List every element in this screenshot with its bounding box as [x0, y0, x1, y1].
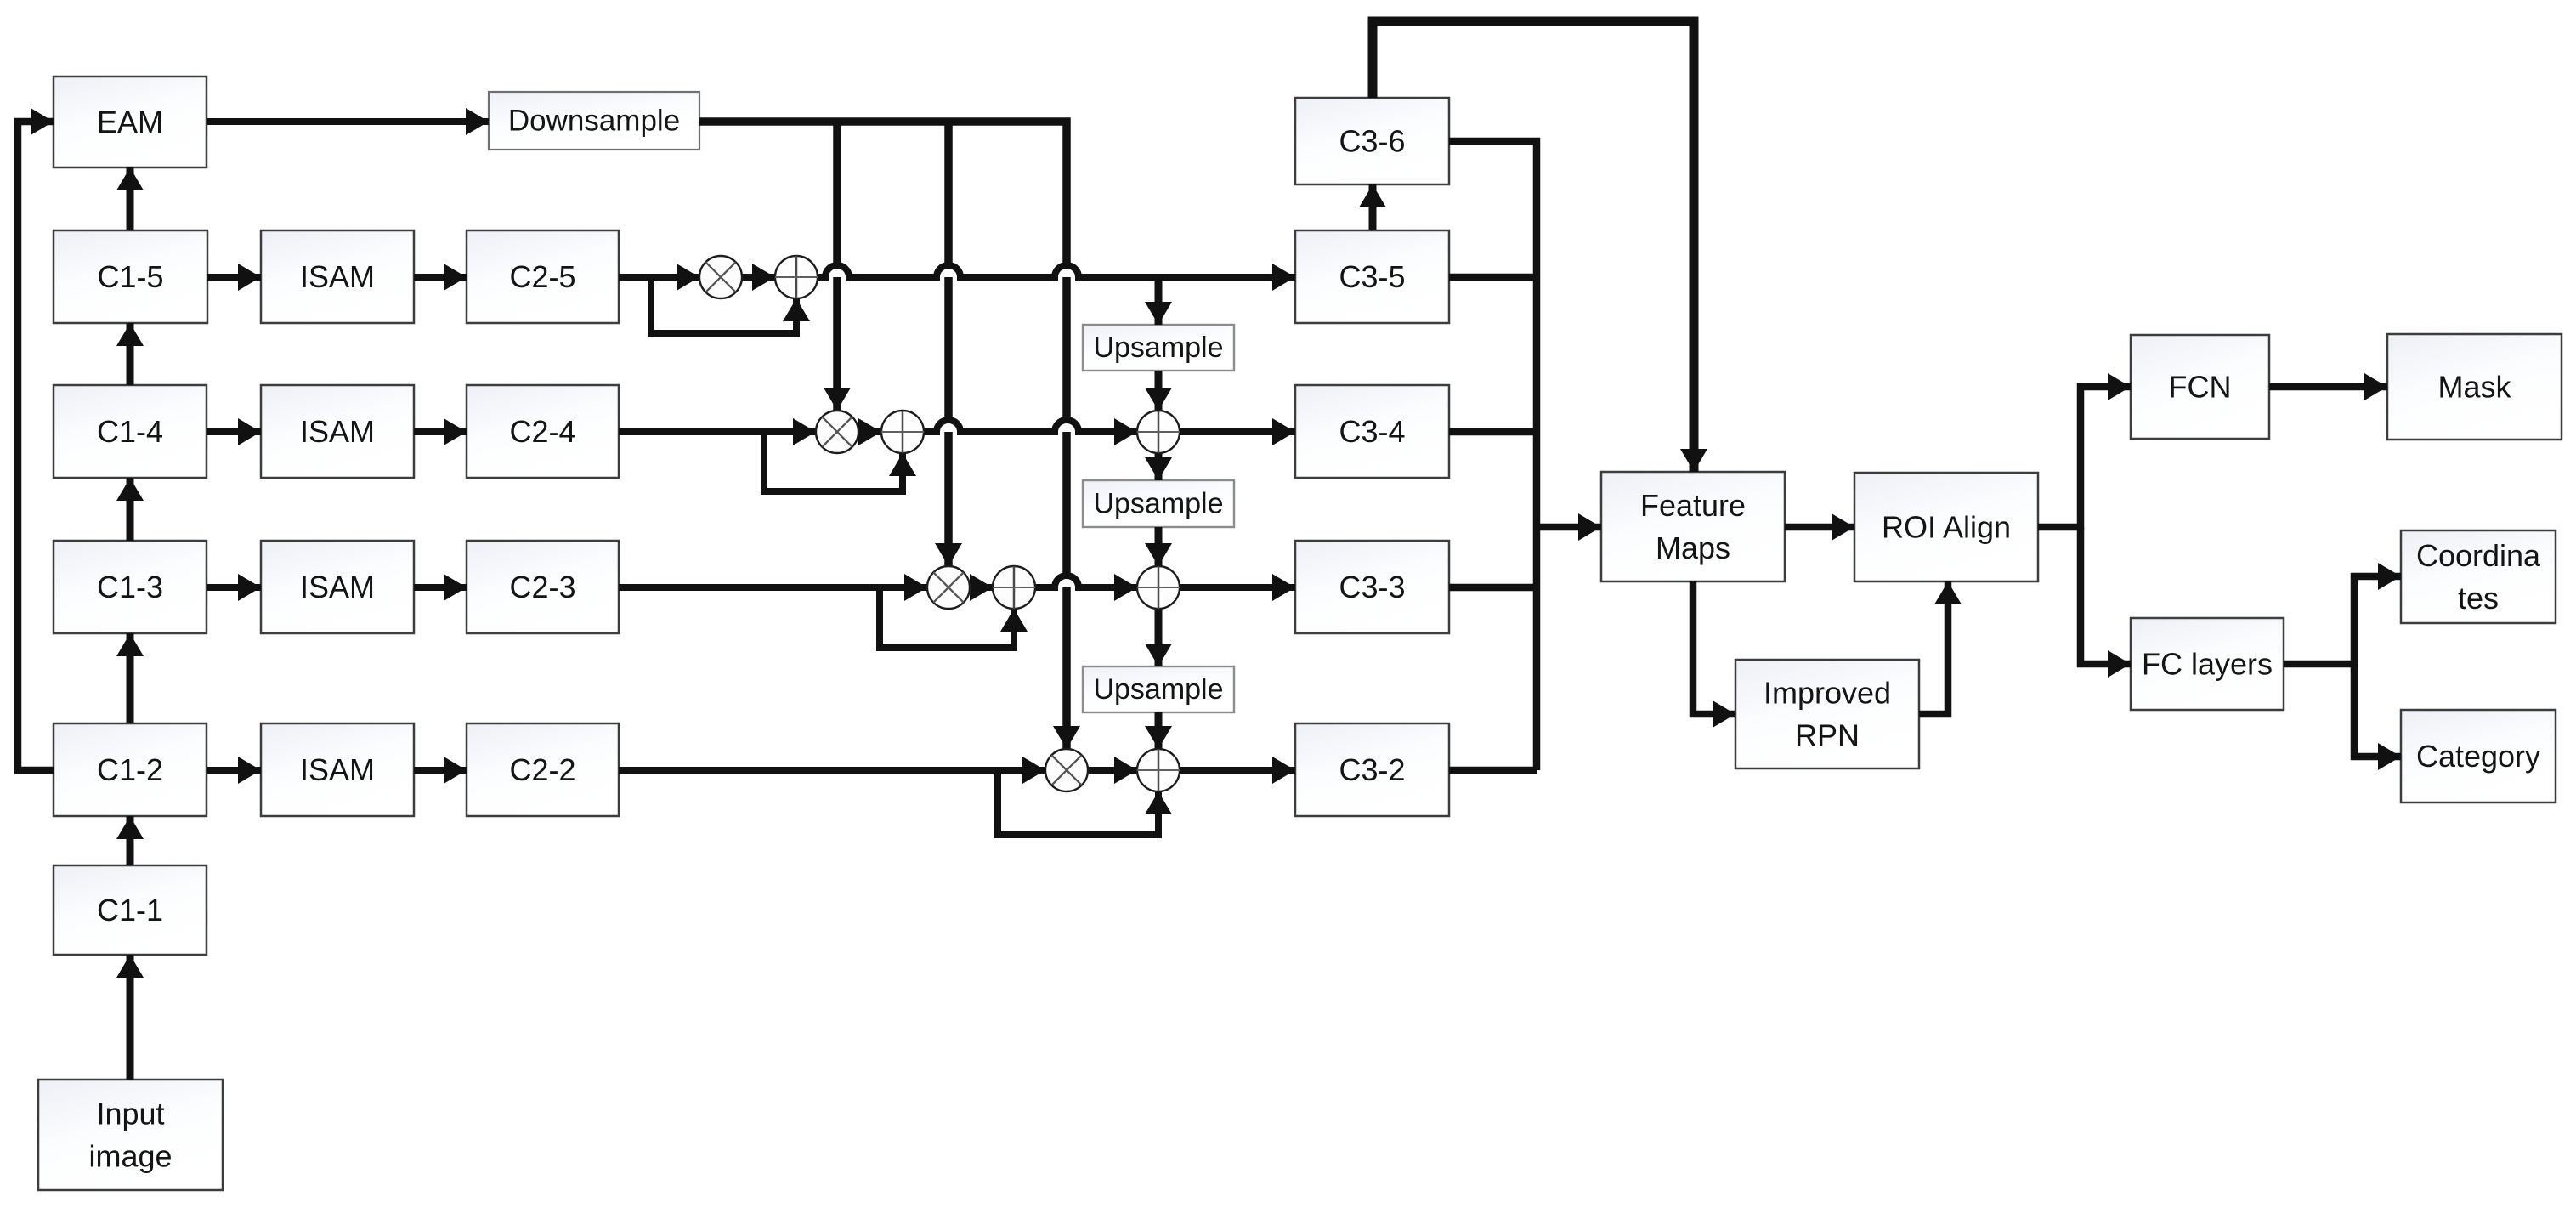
- wire C3-6 to bus: [1449, 141, 1537, 770]
- svg-text:C3-3: C3-3: [1339, 570, 1405, 604]
- svg-text:ISAM: ISAM: [300, 570, 375, 604]
- block C3-4: [1295, 385, 1449, 478]
- multiplier row4: [816, 411, 858, 453]
- upsample adder row3: [1137, 566, 1180, 609]
- svg-text:C3-6: C3-6: [1339, 124, 1405, 159]
- svg-text:Category: Category: [2416, 739, 2540, 774]
- wire Feature Maps to ROI Align: [1785, 524, 1854, 531]
- svg-text:C1-3: C1-3: [97, 570, 163, 604]
- wire C3-5 to bus: [1449, 274, 1537, 281]
- block C3-6: [1295, 98, 1449, 184]
- block ISAM row4: [261, 385, 414, 478]
- wire ROI Align to FCN: [2038, 387, 2131, 527]
- wire C2-4 to mult row4: [619, 428, 816, 435]
- block C2-3: [467, 541, 619, 633]
- block Upsample 3: [1083, 666, 1234, 712]
- multiplier row3: [927, 566, 970, 609]
- wire ISAM to C2-4: [414, 428, 467, 435]
- svg-text:Upsample: Upsample: [1093, 488, 1223, 520]
- block C3-5: [1295, 230, 1449, 323]
- multiplier row2: [1045, 749, 1088, 791]
- block ISAM row3: [261, 541, 414, 633]
- wire C3-6 top route to Feature Maps: [1373, 21, 1694, 472]
- wire Improved RPN to ROI Align: [1919, 581, 1948, 714]
- svg-text:Upsample: Upsample: [1093, 673, 1223, 706]
- block Improved RPN: [1735, 660, 1919, 768]
- block Mask: [2387, 334, 2562, 440]
- svg-text:EAM: EAM: [97, 105, 163, 139]
- adder row5: [775, 256, 818, 298]
- block FC layers: [2131, 618, 2284, 710]
- block C2-4: [467, 385, 619, 478]
- wire C1-5 to ISAM: [207, 274, 261, 281]
- svg-text:Feature: Feature: [1640, 488, 1746, 523]
- block C2-5: [467, 230, 619, 323]
- wire drop to mult row4: [833, 122, 841, 411]
- wire C2-2 to mult row2: [619, 767, 1045, 774]
- svg-text:ISAM: ISAM: [300, 414, 375, 449]
- wire mult to add row3: [970, 584, 993, 591]
- wire upsample-add row3 to C3-3: [1180, 584, 1295, 591]
- adder row3: [993, 566, 1035, 609]
- block Feature Maps: [1601, 472, 1785, 581]
- wire C1-5 to EAM: [127, 167, 134, 230]
- wire C1-2 to ISAM: [207, 767, 261, 774]
- wire mult row2 to upsample-add: [1088, 767, 1137, 774]
- wire C1-1 to C1-2: [127, 816, 134, 865]
- wire upsample-add row4 to C3-4: [1180, 428, 1295, 435]
- block C1-5: [54, 230, 207, 323]
- svg-text:Input: Input: [96, 1097, 164, 1131]
- svg-text:C2-4: C2-4: [509, 414, 575, 449]
- svg-text:Improved: Improved: [1764, 676, 1891, 711]
- wire Downsample trunk and drop to mult row2: [699, 122, 1067, 749]
- upsample adder row2: [1137, 749, 1180, 791]
- wire EAM to Downsample: [207, 118, 489, 125]
- svg-text:FCN: FCN: [2169, 370, 2232, 405]
- wire C2-3 to mult row3: [619, 584, 927, 591]
- wire add row3 to Upsample3: [1155, 609, 1163, 666]
- wire Feature Maps to Improved RPN: [1693, 581, 1735, 714]
- block Coordinates: [2401, 530, 2556, 623]
- svg-text:ISAM: ISAM: [300, 259, 375, 294]
- wire C2-5 to mult row5: [619, 274, 699, 281]
- svg-text:C1-5: C1-5: [97, 259, 163, 294]
- block ISAM row2: [261, 723, 414, 816]
- svg-text:image: image: [88, 1139, 172, 1174]
- wire add row4 to Upsample2: [1155, 453, 1163, 480]
- wire FCN to Mask: [2269, 383, 2387, 391]
- upsample adder row4: [1137, 411, 1180, 453]
- block FCN: [2131, 335, 2269, 439]
- svg-text:Maps: Maps: [1656, 530, 1730, 565]
- wire C3-2 to bus: [1449, 767, 1537, 774]
- svg-text:C2-2: C2-2: [509, 752, 575, 787]
- block Input image: [38, 1080, 223, 1190]
- wire C3-5 to C3-6: [1369, 184, 1377, 230]
- svg-text:Mask: Mask: [2437, 370, 2511, 405]
- block Downsample: [489, 92, 699, 150]
- block ROI Align: [1854, 473, 2038, 581]
- multiplier row5: [699, 256, 742, 298]
- svg-text:C1-1: C1-1: [97, 893, 163, 927]
- svg-text:Upsample: Upsample: [1093, 332, 1223, 364]
- svg-text:C2-5: C2-5: [509, 259, 575, 294]
- svg-text:C2-3: C2-3: [509, 570, 575, 604]
- wire FC layers to Coordinates: [2284, 576, 2401, 664]
- wire Upsample2 to add row3: [1155, 527, 1163, 566]
- block Upsample 2: [1083, 480, 1234, 527]
- wire ISAM to C2-2: [414, 767, 467, 774]
- svg-text:C1-2: C1-2: [97, 752, 163, 787]
- svg-text:C3-2: C3-2: [1339, 752, 1405, 787]
- wire add row5 to C3-5 with hops: [818, 265, 1295, 277]
- wire ISAM to C2-3: [414, 584, 467, 591]
- block C3-2: [1295, 723, 1449, 816]
- block C2-2: [467, 723, 619, 816]
- svg-text:ISAM: ISAM: [300, 752, 375, 787]
- svg-text:C3-5: C3-5: [1339, 259, 1405, 294]
- wire mult to add row5: [742, 274, 775, 281]
- block ISAM row5: [261, 230, 414, 323]
- wire drop to mult row3: [944, 122, 953, 566]
- wire add row3 to upsample-add with hop: [1035, 576, 1137, 587]
- wire Input image to C1-1: [127, 955, 134, 1080]
- wire C1-3 to ISAM: [207, 584, 261, 591]
- wire row5 branch to Upsample1: [1155, 277, 1163, 325]
- block C3-3: [1295, 541, 1449, 633]
- wire loop row3: [880, 587, 1014, 648]
- wire C3-4 to bus: [1449, 428, 1537, 436]
- wire ROI Align to FC layers: [2081, 527, 2131, 664]
- wire C1-4 to ISAM: [207, 428, 261, 435]
- wire Upsample3 to add row2: [1155, 712, 1163, 749]
- wire bus to Feature Maps: [1537, 524, 1601, 531]
- wire loop row5: [651, 277, 796, 333]
- svg-text:tes: tes: [2458, 581, 2499, 615]
- wire C1-4 to C1-5: [127, 323, 134, 385]
- block C1-1: [54, 865, 207, 955]
- svg-text:RPN: RPN: [1795, 718, 1860, 753]
- block C1-4: [54, 385, 207, 478]
- svg-text:Coordina: Coordina: [2416, 538, 2541, 573]
- svg-text:FC layers: FC layers: [2142, 647, 2273, 682]
- block Upsample 1: [1083, 325, 1234, 371]
- block C1-2: [54, 723, 207, 816]
- wire loop row2: [998, 770, 1158, 835]
- wire C1-2 to C1-3: [127, 633, 134, 723]
- svg-text:ROI Align: ROI Align: [1882, 510, 2011, 545]
- wire Upsample1 to add row4: [1155, 371, 1163, 411]
- block Category: [2401, 710, 2556, 802]
- wire C1-3 to C1-4: [127, 478, 134, 541]
- wire C3-3 to bus: [1449, 584, 1537, 592]
- wire mult to add row4: [858, 428, 881, 435]
- wire feedback C1-2 to EAM: [18, 122, 54, 770]
- wire add row4 to upsample-add with hops: [924, 420, 1137, 432]
- block EAM: [54, 77, 207, 167]
- wire FC layers to Category: [2354, 664, 2401, 757]
- svg-text:C3-4: C3-4: [1339, 414, 1405, 449]
- svg-text:Downsample: Downsample: [508, 105, 680, 138]
- wire loop row4: [764, 432, 903, 491]
- svg-text:C1-4: C1-4: [97, 414, 163, 449]
- adder row4: [881, 411, 924, 453]
- wire upsample-add row2 to C3-2: [1180, 767, 1295, 774]
- wire ISAM to C2-5: [414, 274, 467, 281]
- block C1-3: [54, 541, 207, 633]
